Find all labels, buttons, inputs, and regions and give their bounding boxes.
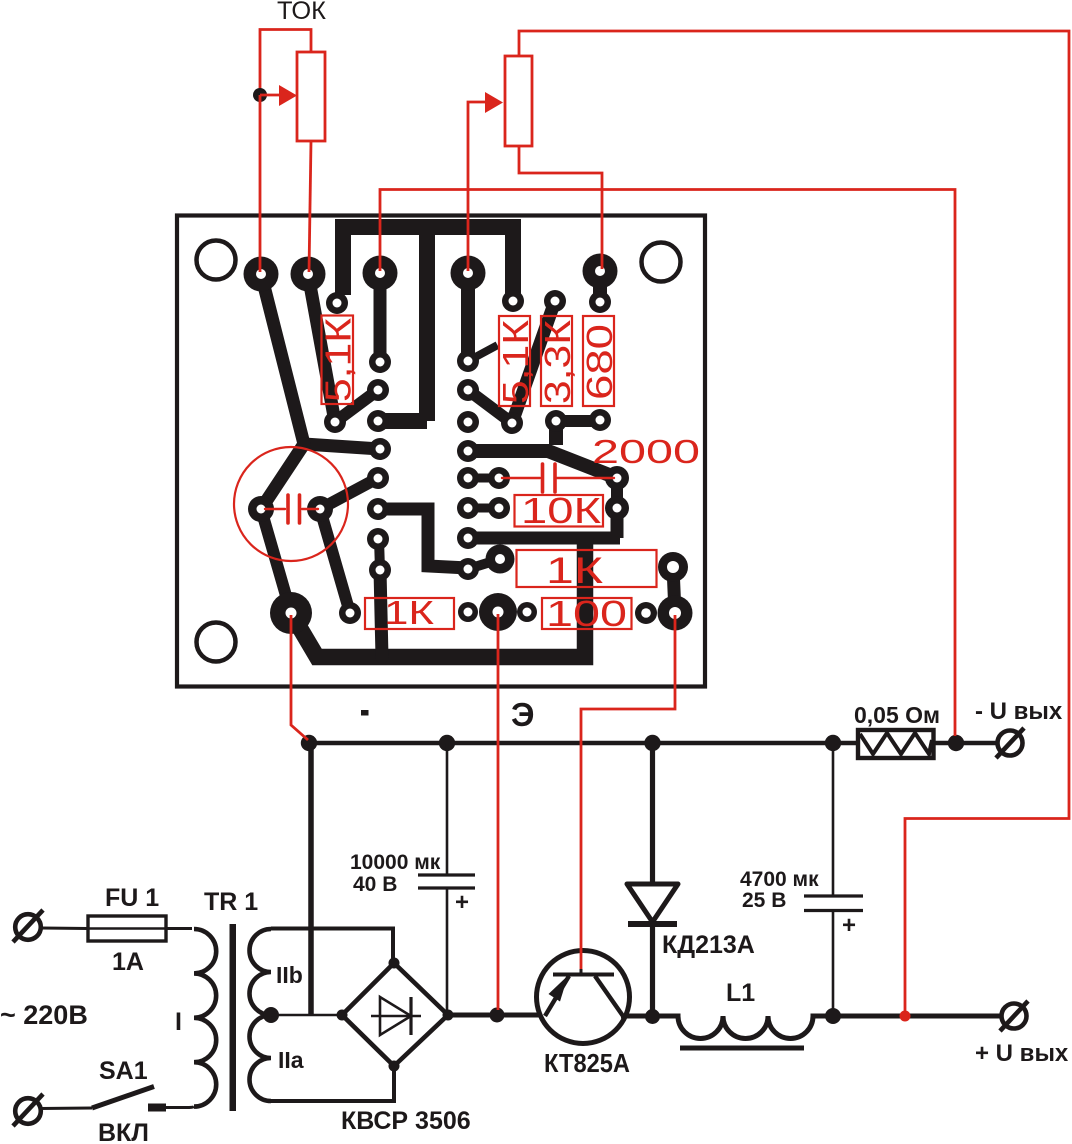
- svg-text:I: I: [175, 1008, 182, 1036]
- node collector: [645, 1009, 660, 1024]
- label minus: [361, 710, 369, 716]
- node C1 top: [439, 735, 455, 751]
- trace cap right pad down: [320, 509, 350, 613]
- wire pot2 top feedback loop: [519, 31, 1069, 1011]
- red value box 100: [542, 593, 632, 634]
- red value box 5,1K left: [318, 316, 359, 405]
- trace diagonal pad to pad: [468, 390, 512, 423]
- trace P5 stem: [593, 271, 607, 302]
- red capacitor symbol 2000: [502, 464, 614, 492]
- other small pads: [339, 290, 657, 624]
- svg-text:IIa: IIa: [278, 1047, 304, 1073]
- bridge rectifier KBPC3506 diamond: [342, 963, 448, 1066]
- wire emitter pad down: [497, 614, 500, 1010]
- pad P1: [244, 257, 279, 292]
- trace pad pair vertical right: [611, 478, 623, 508]
- svg-text:Э: Э: [511, 696, 534, 733]
- node C2 bottom: [825, 1008, 841, 1024]
- svg-text:25 В: 25 В: [742, 889, 786, 912]
- wire bridge to transistor emitter: [448, 1013, 539, 1018]
- mounting hole top-left: [197, 241, 236, 280]
- inductor core bar: [680, 1046, 804, 1051]
- wire diode VD: [650, 743, 655, 1014]
- node sense resistor: [948, 735, 964, 751]
- node emitter junction: [490, 1008, 505, 1023]
- wire secondary top to bridge: [271, 929, 393, 962]
- svg-text:2000: 2000: [592, 433, 700, 470]
- transistor emitter arrow: [549, 976, 569, 1002]
- svg-text:ВКЛ: ВКЛ: [98, 1119, 149, 1144]
- big pad emitter: [479, 593, 517, 631]
- red value box 10K: [515, 490, 604, 531]
- node red junction on plus bus: [900, 1011, 911, 1022]
- trace stub on pad: [468, 347, 494, 361]
- node bridge bottom: [389, 1061, 400, 1072]
- mounting hole bottom-left: [197, 623, 236, 662]
- trace dogbone row3: [468, 504, 499, 513]
- terminal -Uvyh: [996, 728, 1024, 758]
- wire pad P3 to minus output: [380, 190, 955, 737]
- trace output pads vertical: [673, 567, 675, 613]
- trace pad pair horizontal: [556, 415, 600, 427]
- trace dogbone row2: [468, 474, 499, 483]
- big pad out top: [658, 552, 688, 582]
- svg-text:КД213А: КД213А: [662, 931, 755, 959]
- transistor collector lead: [595, 976, 623, 1016]
- wire terminal to fuse: [41, 927, 88, 931]
- big pad row5: [486, 545, 515, 574]
- wire big pad to minus bus: [291, 615, 308, 740]
- red value box 1K left: [365, 594, 454, 631]
- red value box 3,3K: [537, 316, 578, 406]
- small pads column middle: [457, 350, 510, 580]
- transistor emitter lead: [545, 976, 569, 1016]
- node wiper tap: [253, 88, 267, 102]
- wire center tap to bridge left: [271, 1014, 342, 1017]
- transistor KT825A circle: [537, 951, 630, 1044]
- trace short diagonal: [335, 390, 378, 422]
- capacitor pads on PCB: [248, 496, 333, 522]
- wire C2 4700uF leads: [832, 751, 835, 1010]
- node C2 top: [825, 735, 841, 751]
- wire base pad to transistor: [581, 615, 675, 971]
- capacitor C2 4700uF plates: [804, 896, 863, 911]
- transformer primary winding: [194, 929, 216, 1107]
- node bridge left: [337, 1010, 348, 1021]
- trace cap right pad up: [320, 478, 378, 509]
- transistor base bar: [553, 973, 614, 977]
- bridge diode symbol: [371, 997, 421, 1035]
- resistor R 0,05 Ом box: [858, 730, 934, 758]
- svg-text:- U вых: - U вых: [975, 698, 1063, 725]
- transformer core: [230, 924, 237, 1111]
- wire pot2 wiper to pad P4: [468, 102, 486, 271]
- trace row4 with stub: [468, 508, 620, 538]
- trace long diagonal through labels: [512, 301, 555, 423]
- trace bottom bus: [291, 538, 585, 657]
- transformer secondary winding: [250, 929, 272, 1101]
- wire pot1 bottom to pad P2: [309, 141, 311, 272]
- trace P2 diagonal to pad: [308, 274, 335, 422]
- wire pot1 top loop: [260, 30, 311, 96]
- terminal AC top: [13, 910, 43, 942]
- svg-text:КВСР 3506: КВСР 3506: [341, 1107, 471, 1135]
- wire terminal to switch: [40, 1107, 92, 1111]
- potentiometer R-TOK body: [297, 52, 325, 141]
- pad P3: [363, 256, 398, 291]
- svg-text:TR 1: TR 1: [204, 888, 258, 916]
- trace 2000 net: [468, 421, 617, 478]
- red capacitor circle: [234, 447, 348, 561]
- switch SA1 contact: [148, 1104, 166, 1112]
- trace P3 stem: [374, 273, 387, 362]
- svg-text:+ U вых: + U вых: [975, 1040, 1069, 1067]
- pad P2: [291, 257, 326, 292]
- wire collector to node: [621, 1014, 660, 1019]
- trace L shape: [380, 509, 468, 568]
- transistor base tick: [580, 969, 583, 975]
- node bridge right: [443, 1010, 454, 1021]
- svg-text:1К: 1К: [384, 594, 435, 631]
- big pad out bottom: [658, 596, 693, 631]
- wire minus bus to bridge: [308, 743, 314, 1015]
- red value box 1K right: [517, 550, 657, 591]
- wire fuse to primary: [166, 927, 192, 930]
- trace P4 stem: [461, 273, 475, 361]
- svg-text:10К: 10К: [521, 490, 601, 531]
- switch SA1 blade: [92, 1087, 154, 1109]
- svg-text:ТОК: ТОК: [277, 0, 326, 25]
- svg-text:4700 мк: 4700 мк: [740, 868, 819, 891]
- wire primary to switch: [163, 1105, 194, 1109]
- svg-text:10000 мк: 10000 мк: [350, 851, 441, 874]
- svg-text:L1: L1: [726, 979, 755, 1007]
- trace Y junction to cap left pad: [261, 444, 304, 509]
- svg-text:1К: 1К: [546, 550, 604, 591]
- svg-text:40 В: 40 В: [353, 873, 397, 896]
- inductor L1: [652, 1016, 1001, 1039]
- diode KD213A: [627, 884, 678, 924]
- small pads column left: [324, 292, 391, 581]
- node minus bus left: [301, 735, 317, 751]
- node diode top: [644, 735, 660, 751]
- red capacitor symbol left: [265, 495, 318, 523]
- pad P5: [583, 254, 618, 289]
- capacitor C1 10000uF plates: [418, 875, 475, 888]
- wire secondary bottom to bridge: [271, 1064, 394, 1101]
- svg-text:1А: 1А: [112, 948, 144, 976]
- svg-text:+: +: [455, 889, 469, 916]
- svg-text:680: 680: [579, 324, 620, 400]
- svg-text:100: 100: [546, 593, 627, 634]
- trace pad to bottom bus: [380, 570, 382, 657]
- svg-text:5,1К: 5,1К: [495, 320, 536, 404]
- node center tap: [263, 1007, 279, 1023]
- PCB board outline: [177, 216, 705, 687]
- terminal +Uvyh: [1000, 1001, 1028, 1031]
- minus bus wire: [309, 741, 997, 746]
- svg-text:+: +: [842, 912, 856, 939]
- svg-text:3,3К: 3,3К: [537, 320, 578, 404]
- node bridge top: [389, 958, 400, 969]
- big pad bottom left: [270, 592, 312, 634]
- svg-text:~ 220В: ~ 220В: [0, 1000, 88, 1030]
- terminal AC bottom: [13, 1094, 43, 1126]
- trace Y junction to pad row: [304, 444, 380, 449]
- wire tap down to pad P1: [259, 95, 262, 272]
- potentiometer R-U body: [505, 56, 532, 146]
- wire pot2 bottom to pad P5: [519, 146, 602, 269]
- wire wiper arrow R-TOK: [260, 94, 280, 97]
- red value box 680: [579, 316, 620, 406]
- trace cap left pad to big pad: [261, 509, 291, 613]
- trace pad pair vertical: [379, 539, 380, 570]
- pad P4: [451, 256, 486, 291]
- red value box 5,1K right: [495, 316, 536, 406]
- mounting hole top-right: [642, 243, 681, 282]
- trace top T-bar with three legs: [335, 227, 521, 421]
- wire C1 10000uF leads: [446, 743, 449, 1012]
- fuse FU1: [88, 916, 166, 941]
- trace P1 diagonal to Y junction: [261, 274, 304, 444]
- svg-text:0,05 Ом: 0,05 Ом: [854, 702, 940, 728]
- svg-text:FU 1: FU 1: [105, 884, 159, 912]
- svg-text:5,1К: 5,1К: [318, 318, 359, 402]
- trace small link: [468, 560, 497, 569]
- svg-text:КТ825А: КТ825А: [544, 1048, 630, 1078]
- svg-text:SA1: SA1: [99, 1057, 148, 1085]
- svg-text:IIb: IIb: [276, 962, 303, 988]
